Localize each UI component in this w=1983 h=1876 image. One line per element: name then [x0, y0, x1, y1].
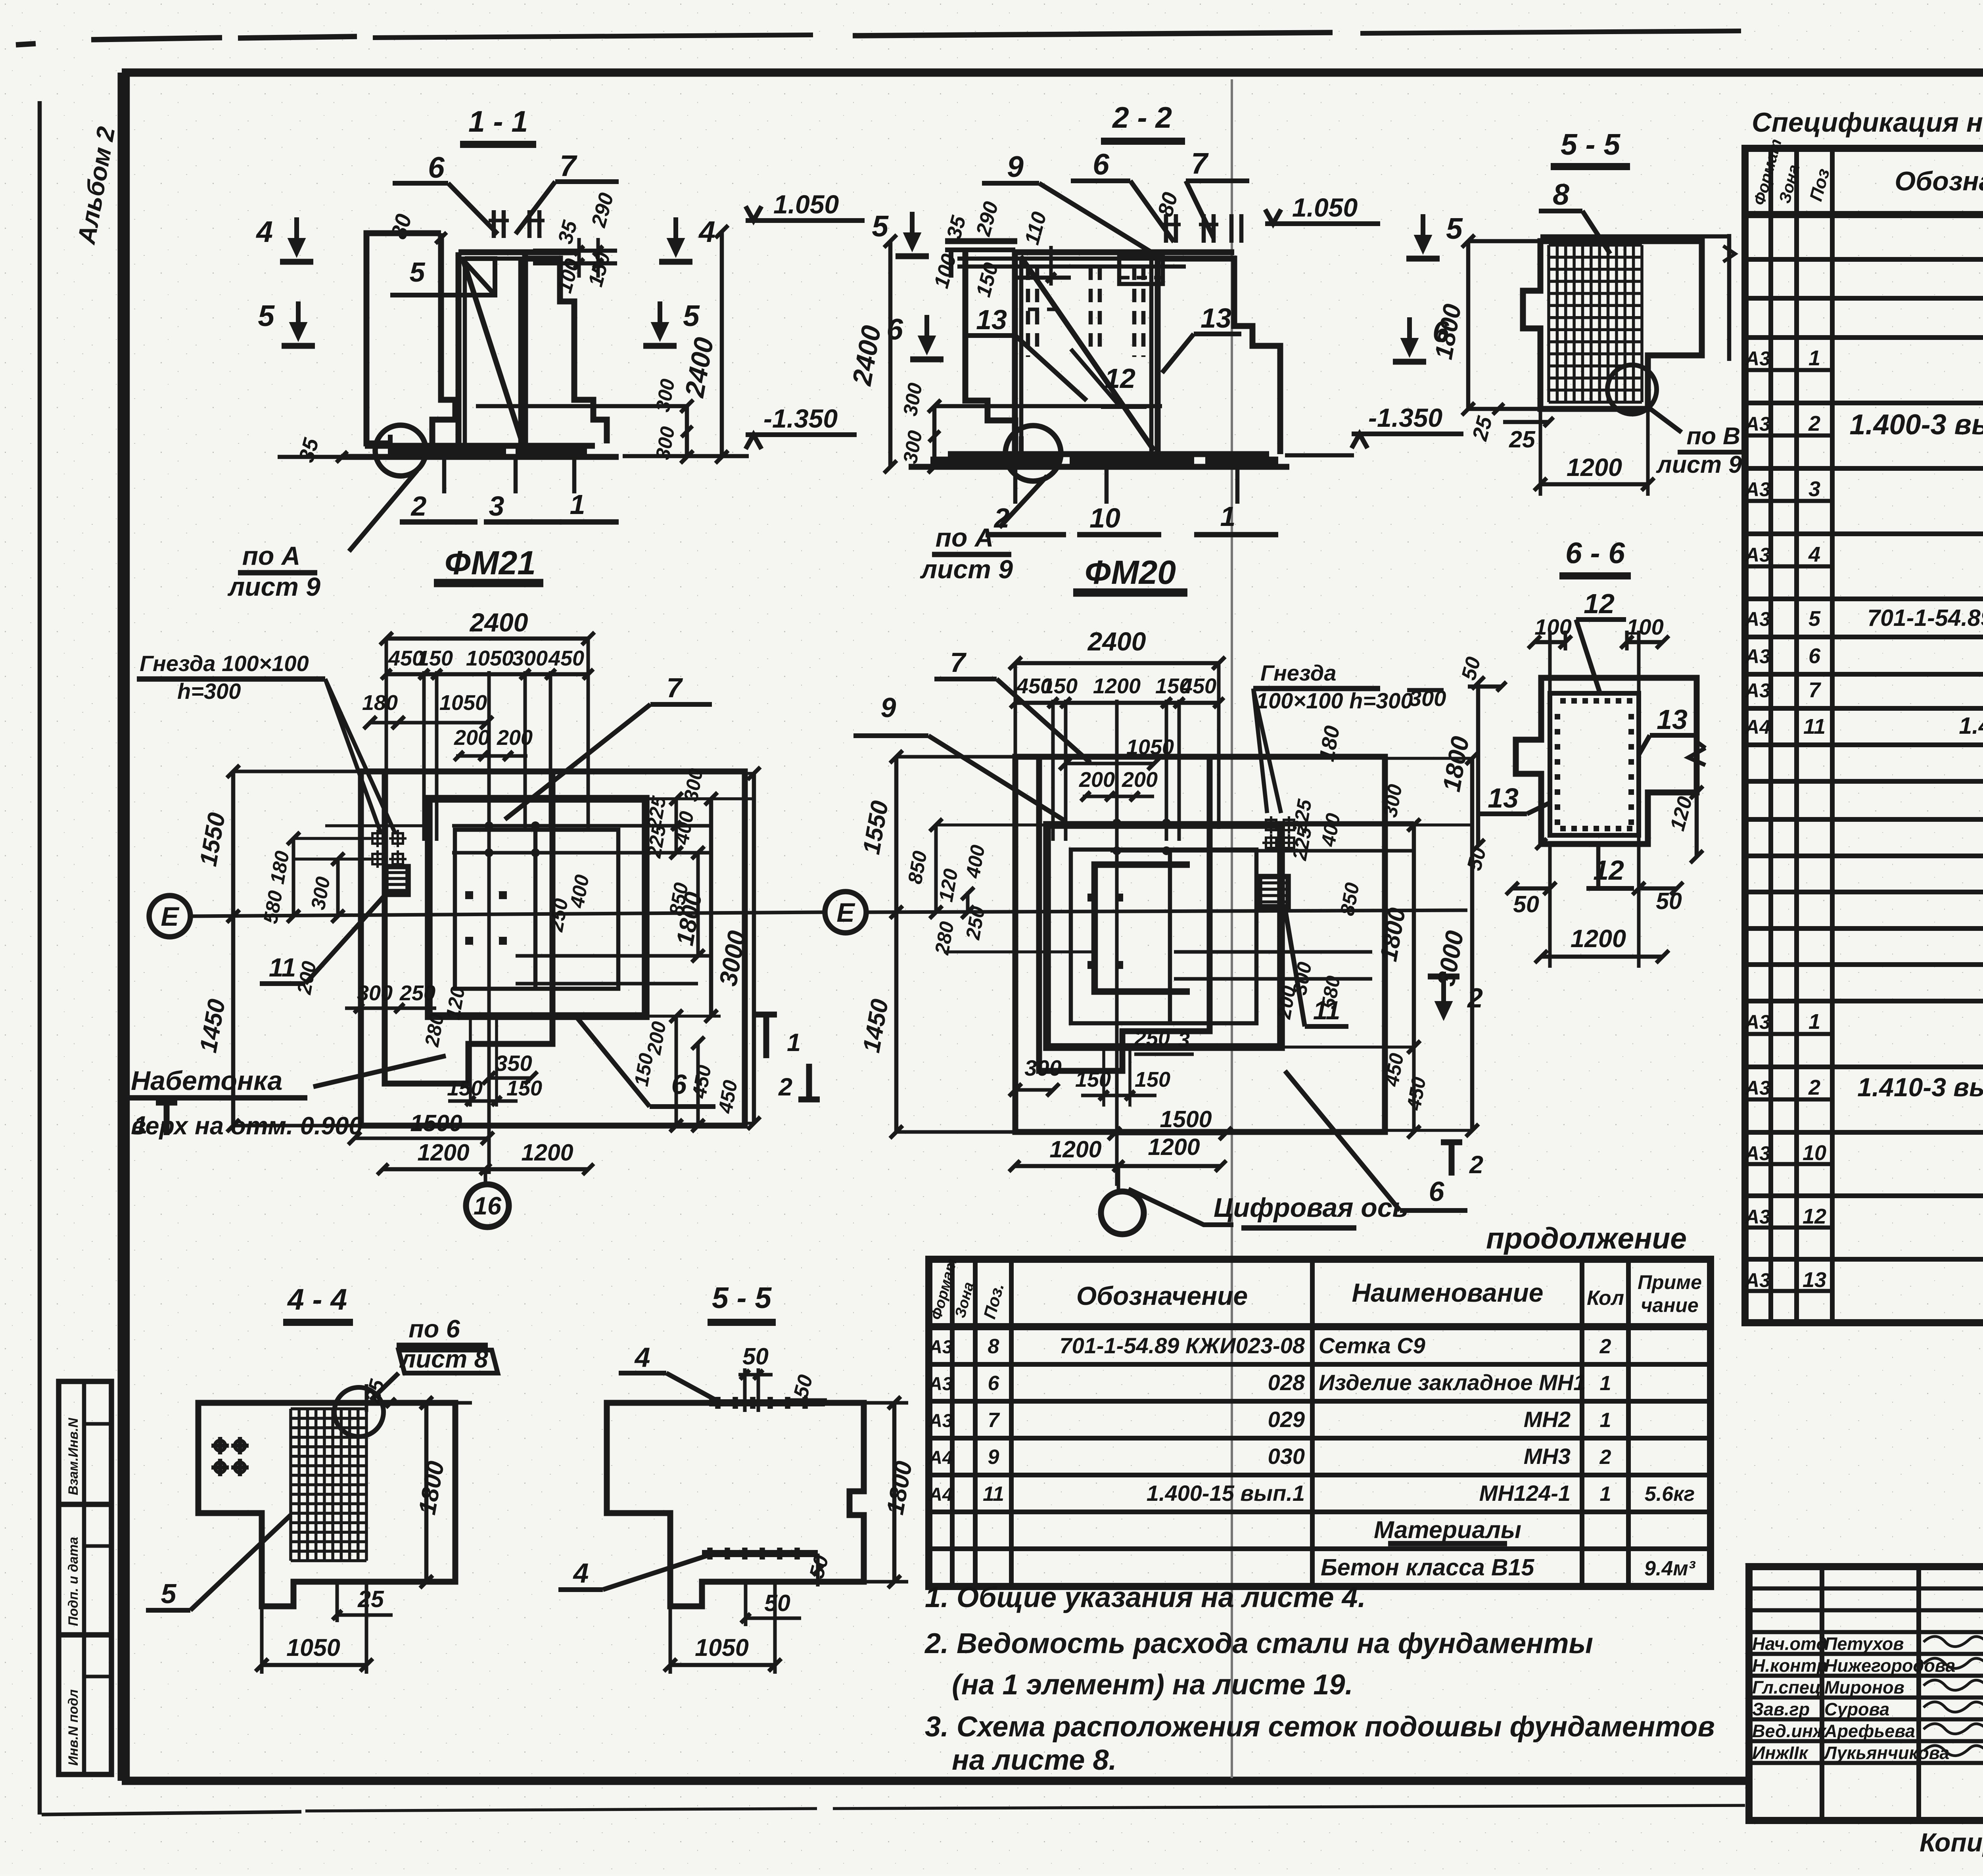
svg-text:h=300: h=300 — [177, 679, 241, 704]
svg-text:6: 6 — [1093, 148, 1110, 181]
svg-text:13: 13 — [1803, 1268, 1826, 1292]
section marks left 1-1 — [294, 217, 299, 252]
svg-text:Гл.спец: Гл.спец — [1752, 1677, 1821, 1698]
svg-text:9: 9 — [1007, 150, 1024, 183]
anchor bolts 1-1 — [492, 210, 496, 238]
right dim with break 5-5 — [1727, 234, 1732, 361]
svg-text:150: 150 — [1135, 1068, 1170, 1091]
svg-text:1 - 1: 1 - 1 — [468, 105, 528, 138]
left margin attribute table — [59, 1381, 111, 1774]
svg-text:Е: Е — [161, 902, 180, 932]
leader gnezda to sockets (FM21) — [325, 679, 395, 833]
svg-text:2: 2 — [1469, 1151, 1483, 1179]
svg-text:300: 300 — [512, 646, 548, 670]
svg-text:1: 1 — [787, 1029, 801, 1057]
detail circle po V (5-5) — [1607, 365, 1657, 414]
baseplate rebar bars 1-1 — [390, 447, 506, 455]
vdim 1800 (FM21) — [709, 799, 713, 1016]
outer slab square FM20 — [1015, 757, 1385, 1132]
vertical dim 1800 (6-6) — [1476, 683, 1481, 846]
grid dots (FM21) — [485, 821, 493, 830]
svg-text:Набетонка: Набетонка — [131, 1066, 282, 1096]
signatures squiggles — [1924, 1636, 1983, 1647]
mesh grid 5-5 — [1547, 245, 1550, 402]
svg-text:А3: А3 — [1744, 679, 1770, 702]
svg-text:1: 1 — [1808, 346, 1820, 370]
svg-text:50: 50 — [1513, 891, 1539, 917]
svg-text:ФМ21: ФМ21 — [445, 544, 536, 581]
svg-text:50: 50 — [1656, 888, 1682, 914]
sheet outer bottom dashed edge — [42, 1812, 301, 1815]
svg-text:2: 2 — [993, 503, 1010, 533]
svg-text:1.400-3 вып.1: 1.400-3 вып.1 — [1849, 409, 1983, 441]
svg-text:5 - 5: 5 - 5 — [1561, 128, 1621, 161]
axis E circle (FM20) — [825, 892, 866, 933]
svg-text:100×100 h=300: 100×100 h=300 — [1256, 688, 1413, 713]
pedestal center bolts FM21 — [465, 891, 473, 899]
section marks left 2-2 — [910, 212, 915, 247]
svg-text:Гнезда: Гнезда — [1260, 660, 1337, 685]
svg-text:Инв.N подл: Инв.N подл — [66, 1689, 81, 1766]
svg-text:А4: А4 — [928, 1484, 953, 1505]
svg-text:5: 5 — [1446, 212, 1463, 245]
bottom leaders 1-1: 2 3 1 — [442, 457, 447, 493]
svg-text:А3: А3 — [1744, 1206, 1770, 1228]
svg-text:Арефьева: Арефьева — [1824, 1721, 1915, 1741]
svg-text:16: 16 — [474, 1192, 502, 1220]
bottom leaders 2-2: 2 10 1 — [1013, 467, 1018, 504]
right block 1-1 outline — [525, 259, 607, 443]
section mark 1 left of FM21 — [164, 1103, 170, 1135]
svg-text:10: 10 — [1803, 1141, 1826, 1165]
svg-text:1050: 1050 — [286, 1634, 340, 1661]
svg-text:А3: А3 — [1744, 608, 1770, 630]
sockets 2x2 (FM20) — [1266, 820, 1276, 830]
svg-text:1. Общие указания на листе 4.: 1. Общие указания на листе 4. — [925, 1582, 1366, 1613]
svg-text:450: 450 — [1180, 674, 1216, 698]
pedestal square FM20 — [1047, 825, 1281, 1047]
svg-text:029: 029 — [1268, 1407, 1305, 1432]
baseplate 1-1 — [365, 443, 595, 449]
vertical dim 1800 (5-5) — [1466, 241, 1471, 409]
dashed rebar in column 2-2 — [1026, 267, 1030, 357]
svg-text:7: 7 — [950, 647, 967, 678]
svg-text:9.4м³: 9.4м³ — [1644, 1557, 1696, 1580]
svg-text:Гнезда 100×100: Гнезда 100×100 — [140, 651, 309, 676]
axis circle 16 (FM21) — [484, 1169, 487, 1184]
left columns mid lines (tall rows) — [1745, 368, 1832, 372]
section marks between plans — [763, 1015, 769, 1058]
svg-text:50: 50 — [742, 1343, 769, 1370]
embed pad hatched (FM21) — [386, 867, 408, 894]
svg-text:чание: чание — [1641, 1294, 1699, 1316]
svg-text:350: 350 — [495, 1051, 532, 1076]
sheet outer top edge (dashes) — [16, 44, 36, 45]
axis E circle (FM21) — [149, 896, 190, 937]
svg-text:4: 4 — [573, 1558, 589, 1588]
svg-text:продолжение: продолжение — [1486, 1222, 1687, 1255]
svg-text:030: 030 — [1268, 1444, 1305, 1469]
grid dots (FM20) — [1112, 819, 1121, 827]
svg-text:150: 150 — [1042, 674, 1078, 698]
svg-text:на листе 8.: на листе 8. — [952, 1744, 1117, 1776]
svg-text:2 - 2: 2 - 2 — [1112, 101, 1172, 134]
pocket C-shape FM20 — [1095, 865, 1190, 992]
svg-text:1.050: 1.050 — [773, 190, 839, 219]
svg-text:4 - 4: 4 - 4 — [287, 1283, 347, 1316]
outer slab square FM21 — [361, 771, 745, 1126]
break mark right (6-6) — [1688, 748, 1705, 765]
svg-text:1200: 1200 — [1093, 674, 1141, 698]
svg-text:по 6: по 6 — [408, 1315, 460, 1343]
svg-text:1050: 1050 — [695, 1634, 749, 1661]
svg-text:5: 5 — [258, 299, 275, 332]
svg-text:5: 5 — [410, 257, 426, 288]
leader from list8 to detail circle — [371, 1373, 399, 1400]
svg-text:250: 250 — [399, 981, 435, 1005]
svg-text:180: 180 — [362, 691, 398, 715]
top dims cluster 1-1 — [533, 249, 617, 253]
svg-text:701-1-54.89 КЖИ023-08: 701-1-54.89 КЖИ023-08 — [1059, 1333, 1305, 1358]
svg-text:5.6кг: 5.6кг — [1645, 1483, 1695, 1506]
svg-text:1500: 1500 — [410, 1110, 462, 1136]
right block 2-2 outline — [1158, 259, 1280, 454]
svg-text:А3: А3 — [1744, 1269, 1770, 1291]
spec header thick underline — [1745, 211, 1983, 218]
svg-text:150: 150 — [1075, 1068, 1111, 1091]
svg-text:7: 7 — [560, 149, 577, 182]
svg-text:3: 3 — [1178, 1028, 1190, 1052]
svg-text:МН2: МН2 — [1524, 1407, 1571, 1432]
section mark 2 right of FM20 — [1449, 1142, 1455, 1176]
inner box top (pocket) 1-1 — [465, 259, 495, 295]
detail circle 1-1 (po A) — [375, 425, 426, 476]
svg-text:А3: А3 — [1744, 645, 1770, 668]
svg-text:200: 200 — [1079, 768, 1115, 792]
svg-text:1050: 1050 — [466, 646, 514, 670]
section 6-6 outer outline — [1516, 678, 1697, 844]
svg-text:4: 4 — [698, 215, 715, 248]
svg-text:1: 1 — [1600, 1409, 1611, 1432]
svg-text:7: 7 — [988, 1409, 1000, 1432]
diagonal 2-2 — [1020, 256, 1154, 451]
svg-text:5: 5 — [872, 209, 889, 243]
pedestal inner rect FM20 — [1071, 850, 1256, 1023]
svg-text:А3: А3 — [1744, 413, 1770, 435]
svg-text:450: 450 — [548, 646, 584, 670]
section 5-5 outline — [1523, 241, 1702, 409]
vdim 3000 (FM21) — [752, 773, 756, 1123]
svg-text:1500: 1500 — [1160, 1106, 1212, 1132]
svg-text:4: 4 — [255, 215, 273, 248]
svg-text:4: 4 — [1808, 543, 1820, 566]
top slab left 2-2 — [945, 238, 1017, 244]
svg-text:7: 7 — [1191, 147, 1209, 180]
spec table frame — [1745, 148, 1983, 1323]
svg-text:3: 3 — [489, 491, 504, 522]
crosses (anchor bolts) 4-4 — [211, 1444, 229, 1448]
svg-text:А3: А3 — [928, 1410, 953, 1431]
vdim 1800 right (5-5b) — [892, 1403, 897, 1582]
svg-text:1: 1 — [1808, 1010, 1820, 1034]
svg-text:2: 2 — [1808, 1076, 1820, 1099]
svg-text:Копировал: К-Л—: Копировал: К-Л— — [1920, 1828, 1983, 1857]
svg-text:5 - 5: 5 - 5 — [712, 1281, 772, 1314]
svg-text:-1.350: -1.350 — [763, 404, 838, 433]
svg-text:6: 6 — [1808, 644, 1821, 668]
dashed pocket box 2-2 — [1119, 256, 1163, 284]
svg-text:150: 150 — [506, 1076, 542, 1100]
svg-text:Бетон класса В15: Бетон класса В15 — [1321, 1554, 1534, 1581]
svg-text:150: 150 — [447, 1076, 483, 1100]
detail circle 2-2 (po A) — [1005, 426, 1061, 481]
svg-text:028: 028 — [1268, 1370, 1305, 1395]
mesh 4-4 — [289, 1409, 292, 1561]
svg-text:300: 300 — [1024, 1055, 1061, 1080]
axis E line (FM21) — [190, 912, 824, 916]
grid extension verticals (FM21) — [385, 639, 388, 888]
nabetonka stepped outline FM20 — [1039, 757, 1210, 1071]
vertical dim 2400 (2-2) — [888, 241, 893, 467]
svg-text:Петухов: Петухов — [1824, 1634, 1904, 1654]
svg-text:5: 5 — [683, 299, 700, 332]
digital axis circle (FM20) — [1117, 1166, 1120, 1191]
svg-text:1.400-15 вып.1: 1.400-15 вып.1 — [1147, 1481, 1305, 1506]
svg-text:11: 11 — [269, 953, 296, 982]
axis E line (FM20) — [866, 910, 1467, 912]
svg-text:1: 1 — [134, 1111, 148, 1139]
dim 1200 (5-5) — [1540, 482, 1648, 487]
svg-text:8: 8 — [988, 1335, 999, 1358]
svg-text:2400: 2400 — [1087, 627, 1146, 656]
svg-text:6: 6 — [988, 1372, 1000, 1395]
dim line top 5-5 — [1540, 234, 1729, 239]
pedestal center bolts FM20 — [1087, 894, 1095, 902]
svg-text:7: 7 — [1808, 678, 1822, 702]
inner grid horizontals (FM21) — [452, 824, 711, 828]
pedestal inner rect FM21 — [455, 830, 618, 989]
svg-text:1: 1 — [570, 489, 585, 520]
sleeve inner rect 6-6 — [1550, 693, 1639, 835]
svg-text:13: 13 — [976, 304, 1007, 335]
inner grid horizontals (FM20) — [1110, 821, 1414, 825]
svg-text:А3: А3 — [1744, 544, 1770, 566]
svg-text:1: 1 — [1600, 1483, 1611, 1506]
grid extension verticals (FM20) — [1014, 663, 1017, 888]
svg-text:5: 5 — [1808, 607, 1821, 631]
svg-text:Подп. и дата: Подп. и дата — [66, 1537, 81, 1626]
svg-text:13: 13 — [1657, 704, 1688, 735]
svg-text:Цифровая ось: Цифровая ось — [1214, 1193, 1408, 1223]
prodolzhenie table frame — [929, 1259, 1711, 1586]
baseplate rebar bars 2-2 — [930, 457, 1059, 464]
pedestal square FM21 — [429, 799, 646, 1016]
svg-text:А3: А3 — [1744, 1011, 1770, 1033]
svg-text:2: 2 — [1808, 412, 1820, 435]
svg-text:Взам.Инв.N: Взам.Инв.N — [66, 1418, 81, 1495]
svg-text:4: 4 — [634, 1342, 650, 1373]
svg-text:лист 9: лист 9 — [1656, 451, 1742, 478]
svg-text:150: 150 — [417, 646, 453, 670]
svg-text:2: 2 — [1599, 1446, 1611, 1469]
svg-text:Миронов: Миронов — [1824, 1677, 1904, 1698]
leader gnezda to sockets (FM20) — [1253, 689, 1281, 813]
svg-text:1200: 1200 — [1148, 1134, 1200, 1160]
svg-text:Нач.отд: Нач.отд — [1752, 1634, 1827, 1654]
svg-text:200: 200 — [454, 726, 490, 750]
main drawing frame — [122, 69, 1983, 77]
section 4-4 outline — [198, 1403, 455, 1606]
svg-text:2: 2 — [1467, 982, 1483, 1013]
svg-text:300: 300 — [357, 981, 393, 1005]
svg-text:25: 25 — [357, 1586, 384, 1612]
svg-text:3: 3 — [1808, 477, 1820, 501]
svg-text:1050: 1050 — [439, 691, 487, 715]
rebar ticks top (5-5b) — [715, 1397, 721, 1409]
svg-text:-1.350: -1.350 — [1368, 403, 1442, 432]
embed pad hatched (FM20) — [1260, 877, 1288, 907]
left block 1-1 outline — [366, 233, 441, 443]
svg-text:А3: А3 — [1744, 1142, 1770, 1164]
svg-text:200: 200 — [1122, 768, 1158, 792]
svg-text:А3: А3 — [928, 1336, 953, 1357]
svg-text:лист 9: лист 9 — [920, 554, 1013, 584]
section marks right 2-2 — [1421, 214, 1425, 249]
svg-text:Кол: Кол — [1587, 1287, 1624, 1310]
svg-text:МН3: МН3 — [1524, 1444, 1571, 1469]
sheet outer left edge — [38, 101, 42, 1815]
svg-text:9: 9 — [988, 1446, 999, 1469]
sockets 2x2 (FM21) — [372, 833, 383, 844]
section marks right 1-1 — [673, 217, 678, 252]
column 1-1 — [456, 252, 462, 446]
diagonal 1-1 — [463, 260, 523, 444]
svg-text:1200: 1200 — [1567, 454, 1622, 481]
svg-text:А4: А4 — [928, 1447, 953, 1468]
svg-text:250: 250 — [1134, 1026, 1170, 1050]
svg-text:7: 7 — [667, 672, 683, 703]
svg-text:25: 25 — [1509, 426, 1536, 453]
svg-text:А3: А3 — [928, 1373, 953, 1394]
svg-text:2: 2 — [410, 491, 427, 522]
baseplate 2-2 — [948, 451, 1269, 457]
stamp rows — [1749, 1586, 1983, 1591]
svg-text:3. Схема расположения сеток по: 3. Схема расположения сеток подошвы фунд… — [925, 1711, 1715, 1743]
svg-text:200: 200 — [497, 726, 533, 750]
nabetonka stepped outline FM21 — [385, 771, 552, 1084]
svg-text:(на 1 элемент) на листе 19.: (на 1 элемент) на листе 19. — [952, 1669, 1353, 1701]
svg-text:ФМ20: ФМ20 — [1085, 554, 1176, 591]
svg-text:11: 11 — [1803, 715, 1826, 739]
title block outer — [1749, 1567, 1983, 1820]
svg-text:лист 9: лист 9 — [227, 572, 320, 601]
svg-text:5: 5 — [161, 1578, 177, 1609]
anchor bolts 2-2 — [1164, 214, 1168, 243]
svg-text:701-1-54.89 КЖИ023-04: 701-1-54.89 КЖИ023-04 — [1867, 605, 1983, 631]
svg-text:А3: А3 — [1744, 1077, 1770, 1099]
detail circle 4-4 — [334, 1387, 384, 1437]
svg-text:МН124-1: МН124-1 — [1479, 1481, 1571, 1506]
svg-text:А3: А3 — [1744, 478, 1770, 501]
svg-text:А3: А3 — [1744, 347, 1770, 370]
svg-text:Е: Е — [836, 898, 855, 928]
svg-text:А4: А4 — [1744, 716, 1770, 738]
dims 300 300 (2-2) — [932, 406, 937, 467]
vertical dim 2400 (1-1) — [720, 232, 724, 457]
svg-text:2. Ведомость расхода стали на: 2. Ведомость расхода стали на фундаменты — [924, 1628, 1593, 1659]
svg-text:Н.контр: Н.контр — [1752, 1655, 1828, 1676]
svg-text:12: 12 — [1105, 363, 1135, 394]
svg-text:1: 1 — [1220, 501, 1236, 532]
svg-text:Обозначение: Обозначение — [1895, 166, 1983, 196]
svg-text:Спецификация на монолитные фун: Спецификация на монолитные фундаменты ФМ… — [1752, 107, 1983, 138]
svg-text:8: 8 — [1553, 178, 1569, 211]
rebar ticks bottom (5-5b) — [707, 1548, 713, 1559]
svg-text:Изделие закладное МН1: Изделие закладное МН1 — [1319, 1370, 1586, 1395]
rebar dots 6-6 — [1560, 698, 1566, 704]
svg-text:1200: 1200 — [1571, 925, 1626, 953]
svg-text:1: 1 — [1600, 1372, 1611, 1395]
svg-text:Обозначение: Обозначение — [1076, 1281, 1248, 1310]
svg-text:13: 13 — [1201, 303, 1231, 334]
svg-text:1.410-3 вып.1: 1.410-3 вып.1 — [1857, 1072, 1983, 1102]
svg-text:1200: 1200 — [417, 1139, 469, 1166]
vdim 1800 (4-4) — [424, 1403, 429, 1582]
svg-text:6 - 6: 6 - 6 — [1565, 536, 1625, 570]
svg-text:50: 50 — [764, 1590, 790, 1616]
left vdim 1550/1450 (FM20) — [894, 757, 899, 1132]
svg-text:1200: 1200 — [521, 1139, 573, 1166]
svg-text:по В: по В — [1686, 422, 1740, 449]
svg-text:6: 6 — [671, 1069, 687, 1100]
svg-text:Наименование: Наименование — [1352, 1278, 1544, 1307]
dims 300 300 (1-1) — [685, 406, 689, 457]
svg-text:13: 13 — [1488, 783, 1519, 813]
svg-text:12: 12 — [1803, 1205, 1826, 1228]
svg-text:Зав.гр: Зав.гр — [1752, 1699, 1810, 1719]
leader tsifrovaya os — [1128, 1189, 1233, 1225]
svg-text:Приме: Приме — [1638, 1271, 1702, 1293]
svg-text:6: 6 — [428, 151, 445, 184]
left vdim 1550/1450 (FM21) — [231, 771, 236, 1126]
svg-text:10: 10 — [1089, 503, 1120, 533]
svg-text:1200: 1200 — [1049, 1136, 1101, 1162]
left wing 2-2 — [965, 250, 1015, 454]
svg-text:11: 11 — [983, 1483, 1004, 1506]
svg-text:Сурова: Сурова — [1824, 1699, 1889, 1719]
svg-text:Материалы: Материалы — [1374, 1516, 1521, 1543]
scan seam vertical line — [1231, 79, 1233, 1778]
title block stamp columns — [1820, 1567, 1824, 1820]
section mark 2 bottom left (6-6) — [1441, 972, 1446, 1015]
svg-text:по А: по А — [242, 541, 301, 570]
section 5-5 outline — [607, 1403, 864, 1606]
svg-text:2400: 2400 — [469, 608, 528, 637]
svg-text:9: 9 — [881, 692, 896, 723]
svg-text:6: 6 — [1429, 1176, 1445, 1207]
svg-text:12: 12 — [1584, 588, 1615, 619]
svg-text:2: 2 — [778, 1073, 792, 1101]
svg-text:1.400-15 вып.1: 1.400-15 вып.1 — [1959, 713, 1983, 739]
svg-text:2: 2 — [1599, 1335, 1611, 1358]
svg-text:по А: по А — [936, 523, 994, 552]
svg-text:1.050: 1.050 — [1292, 193, 1358, 222]
column 2-2 outer — [1012, 252, 1018, 454]
svg-text:Сетка С9: Сетка С9 — [1319, 1333, 1425, 1358]
svg-text:Вед.инж: Вед.инж — [1752, 1721, 1827, 1741]
svg-text:ИнжIIк: ИнжIIк — [1752, 1743, 1809, 1763]
